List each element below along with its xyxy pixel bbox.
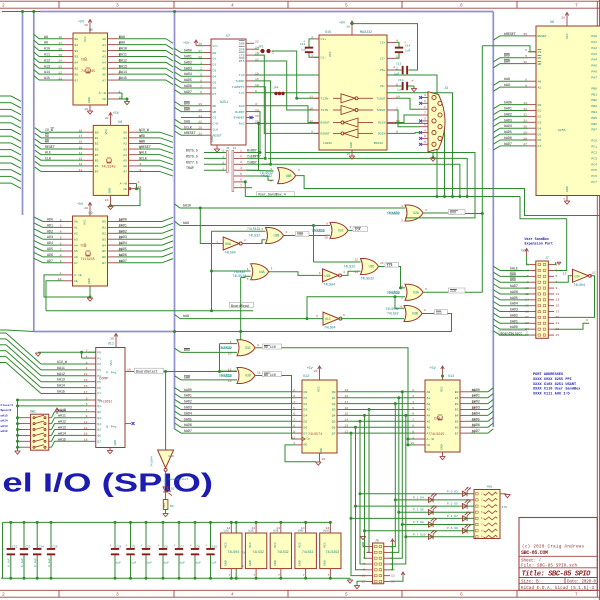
svg-text:8: 8 <box>412 424 414 428</box>
svg-text:20: 20 <box>314 369 318 373</box>
svg-text:wA15: wA15 <box>58 437 66 441</box>
svg-text:IIO: IIO <box>450 289 456 293</box>
svg-text:B1: B1 <box>95 136 99 140</box>
svg-text:P.1 D4: P.1 D4 <box>413 496 424 499</box>
svg-text:RD: RD <box>213 104 217 108</box>
svg-text:Cp: Cp <box>307 437 311 441</box>
svg-text:BRD: BRD <box>504 54 510 58</box>
svg-text:D1: D1 <box>538 109 542 113</box>
svg-text:bCLK: bCLK <box>139 156 147 160</box>
svg-text:B7: B7 <box>95 170 99 174</box>
svg-text:Q0: Q0 <box>332 390 336 394</box>
svg-text:7: 7 <box>303 573 305 577</box>
svg-text:RTS: RTS <box>239 59 245 63</box>
svg-text:GND: GND <box>298 560 302 566</box>
svg-text:1uF: 1uF <box>405 50 411 53</box>
svg-text:bA9: bA9 <box>504 83 510 87</box>
svg-text:bRD: bRD <box>139 134 145 138</box>
svg-text:VCC: VCC <box>317 386 321 392</box>
svg-text:IO_W: IO_W <box>45 128 53 132</box>
svg-text:4: 4 <box>400 304 402 308</box>
svg-text:13: 13 <box>354 270 358 274</box>
svg-text:P=q: P=q <box>111 371 117 375</box>
svg-text:Date: 2020-0: Date: 2020-0 <box>567 580 596 584</box>
svg-text:14: 14 <box>227 526 231 530</box>
svg-text:11: 11 <box>361 573 365 577</box>
svg-text:PB0: PB0 <box>591 86 597 90</box>
svg-text:J3: J3 <box>444 87 448 91</box>
svg-text:A3: A3 <box>427 408 431 412</box>
svg-text:bA12: bA12 <box>57 372 65 376</box>
svg-text:11: 11 <box>556 292 560 296</box>
svg-text:B6: B6 <box>102 255 106 259</box>
svg-text:bAD2: bAD2 <box>119 229 127 233</box>
svg-text:1uF: 1uF <box>196 562 202 565</box>
svg-text:WR: WR <box>213 110 217 114</box>
svg-text:D6: D6 <box>213 86 217 90</box>
svg-text:C7: C7 <box>180 546 184 549</box>
svg-text:ALE: ALE <box>45 151 51 155</box>
svg-text:RST7.5: RST7.5 <box>186 160 198 164</box>
svg-text:PA7: PA7 <box>591 75 597 79</box>
svg-text:A4: A4 <box>74 243 78 247</box>
svg-text:9: 9 <box>326 221 328 225</box>
svg-text:A7: A7 <box>74 261 78 265</box>
svg-text:A3: A3 <box>102 55 106 59</box>
svg-text:bRESET: bRESET <box>504 32 516 36</box>
svg-text:A11: A11 <box>44 52 50 56</box>
svg-text:0.1uF: 0.1uF <box>8 558 11 567</box>
svg-text:7: 7 <box>424 111 426 115</box>
svg-text:BA11: BA11 <box>119 52 127 56</box>
svg-text:D0: D0 <box>213 51 217 55</box>
svg-text:19: 19 <box>410 441 414 445</box>
svg-text:Q0: Q0 <box>97 398 101 402</box>
svg-text:bA15: bA15 <box>57 390 65 394</box>
svg-text:*: * <box>205 544 207 549</box>
svg-text:U6A: U6A <box>225 242 231 246</box>
svg-text:4: 4 <box>424 128 426 132</box>
svg-text:1uF: 1uF <box>180 562 186 565</box>
svg-text:Q5: Q5 <box>332 420 336 424</box>
svg-text:A2: A2 <box>427 402 431 406</box>
svg-text:16: 16 <box>255 114 259 118</box>
svg-text:A0: A0 <box>102 37 106 41</box>
svg-text:CS: CS <box>538 50 542 54</box>
svg-text:P: P <box>106 371 108 375</box>
svg-text:13: 13 <box>556 298 560 302</box>
svg-text:B4: B4 <box>95 153 99 157</box>
svg-text:CE: CE <box>427 443 431 447</box>
svg-text:B1: B1 <box>102 226 106 230</box>
svg-text:wA12: wA12 <box>58 420 66 424</box>
svg-text:bAD4: bAD4 <box>119 241 127 245</box>
svg-text:A6: A6 <box>427 425 431 429</box>
svg-text:13: 13 <box>563 272 567 276</box>
svg-text:74LS04: 74LS04 <box>574 283 586 287</box>
svg-text:AD4: AD4 <box>47 241 53 245</box>
svg-text:19: 19 <box>127 368 131 372</box>
svg-text:Q3: Q3 <box>97 416 101 420</box>
svg-text:VCC: VCC <box>273 542 277 548</box>
svg-text:bA11: bA11 <box>57 366 65 370</box>
svg-text:RD: RD <box>45 134 49 138</box>
svg-text:bAD7: bAD7 <box>119 259 127 263</box>
svg-text:bAD6: bAD6 <box>184 84 192 88</box>
svg-text:2: 2 <box>244 238 246 242</box>
svg-text:bAD4: bAD4 <box>510 302 518 306</box>
svg-text:bAD2: bAD2 <box>184 60 192 64</box>
svg-text:PB5: PB5 <box>591 116 597 120</box>
svg-text:13: 13 <box>228 379 232 383</box>
svg-text:5: 5 <box>247 277 249 281</box>
svg-text:74LS532: 74LS532 <box>312 229 325 233</box>
svg-text:3: 3 <box>425 287 427 291</box>
svg-text:B6: B6 <box>75 72 79 76</box>
svg-text:P.5 D8: P.5 D8 <box>413 521 424 524</box>
svg-text:+5V: +5V <box>183 42 190 46</box>
svg-text:T1IN: T1IN <box>321 97 329 101</box>
svg-text:TRAP: TRAP <box>186 166 194 170</box>
svg-text:GND: GND <box>210 136 214 142</box>
svg-text:330: 330 <box>163 503 166 508</box>
svg-text:bAD7: bAD7 <box>504 142 512 146</box>
svg-text:WR: WR <box>45 139 49 143</box>
svg-text:T1OUT: T1OUT <box>376 97 385 101</box>
svg-text:BWR: BWR <box>184 108 190 112</box>
svg-text:PC7: PC7 <box>591 180 597 184</box>
svg-text:20: 20 <box>105 116 109 120</box>
svg-text:3: 3 <box>271 267 273 271</box>
svg-text:74LS532: 74LS532 <box>387 212 400 216</box>
svg-text:AD6: AD6 <box>47 253 53 257</box>
svg-text:A5: A5 <box>427 420 431 424</box>
svg-text:VCC: VCC <box>322 542 326 548</box>
svg-text:A6: A6 <box>102 72 106 76</box>
svg-text:74LS32: 74LS32 <box>344 265 356 269</box>
svg-text:U3C: U3C <box>245 346 251 350</box>
svg-text:TxD: TxD <box>239 73 245 77</box>
svg-text:B0: B0 <box>455 390 459 394</box>
svg-text:9: 9 <box>412 429 414 433</box>
svg-text:3: 3 <box>240 160 242 164</box>
svg-text:bA9: bA9 <box>183 221 189 225</box>
svg-text:A->B: A->B <box>120 182 128 186</box>
svg-text:III: III <box>436 311 442 315</box>
svg-text:RST5.5: RST5.5 <box>186 149 198 153</box>
svg-text:4: 4 <box>286 230 288 234</box>
svg-text:5: 5 <box>412 406 414 410</box>
svg-text:12: 12 <box>592 271 596 275</box>
svg-text:0.1uF: 0.1uF <box>21 558 24 567</box>
svg-text:J7: J7 <box>545 256 549 260</box>
svg-text:BRD: BRD <box>510 278 516 282</box>
svg-text:A9: A9 <box>44 41 48 45</box>
svg-text:5: 5 <box>345 3 348 9</box>
svg-text:Q1: Q1 <box>332 396 336 400</box>
svg-text:D5: D5 <box>304 420 308 424</box>
svg-text:P=q: P=q <box>111 425 117 429</box>
svg-text:PORT ADDRESSES: PORT ADDRESSES <box>533 373 564 377</box>
svg-text:MAX232: MAX232 <box>360 31 372 35</box>
svg-text:Q4: Q4 <box>97 422 101 426</box>
svg-text:DXX: DXX <box>450 211 456 215</box>
svg-text:74LS32: 74LS32 <box>252 550 264 554</box>
svg-text:D7: D7 <box>213 92 217 96</box>
svg-text:VCC: VCC <box>104 129 108 135</box>
svg-text:bAD6: bAD6 <box>510 290 518 294</box>
svg-text:5: 5 <box>270 179 272 183</box>
svg-text:8: 8 <box>257 343 259 347</box>
svg-text:D4: D4 <box>304 414 308 418</box>
svg-text:U2B: U2B <box>274 234 280 238</box>
svg-text:OE: OE <box>304 442 308 446</box>
svg-text:1uF: 1uF <box>211 562 217 565</box>
svg-text:bAD6: bAD6 <box>119 253 127 257</box>
svg-text:7: 7 <box>278 573 280 577</box>
svg-text:3: 3 <box>425 208 427 212</box>
svg-text:C12: C12 <box>396 63 402 66</box>
svg-text:Q6: Q6 <box>97 434 101 438</box>
svg-text:A1: A1 <box>123 136 127 140</box>
svg-text:RxD: RxD <box>239 104 245 108</box>
svg-text:20: 20 <box>84 23 88 27</box>
svg-text:U3D: U3D <box>245 374 251 378</box>
svg-text:*: * <box>125 544 127 549</box>
svg-text:7: 7 <box>563 197 565 201</box>
svg-text:U11: U11 <box>108 343 114 347</box>
svg-text:bA13: bA13 <box>57 378 65 382</box>
svg-text:1: 1 <box>412 435 414 439</box>
svg-text:B6: B6 <box>95 164 99 168</box>
svg-text:AD3: AD3 <box>47 235 53 239</box>
svg-text:RD: RD <box>538 56 542 60</box>
svg-text:bAD3: bAD3 <box>504 118 512 122</box>
svg-text:A14: A14 <box>44 70 50 74</box>
svg-text:BoardSelect: BoardSelect <box>136 370 158 374</box>
svg-text:9: 9 <box>556 286 558 290</box>
svg-text:8: 8 <box>424 122 426 126</box>
svg-text:BRD: BRD <box>184 348 190 352</box>
svg-text:1uF: 1uF <box>116 562 122 565</box>
svg-text:74LS532: 74LS532 <box>260 171 273 175</box>
svg-text:D2: D2 <box>304 402 308 406</box>
svg-text:*: * <box>158 544 160 549</box>
svg-text:7: 7 <box>575 3 578 9</box>
svg-text:BWR: BWR <box>510 272 516 276</box>
svg-text:A->B: A->B <box>427 437 435 441</box>
svg-text:AD0: AD0 <box>47 218 53 222</box>
svg-text:bA10: bA10 <box>183 204 191 208</box>
svg-text:1uF: 1uF <box>147 562 153 565</box>
svg-text:8251: 8251 <box>220 101 228 105</box>
svg-text:XXXX X110 User SandBox: XXXX X110 User SandBox <box>533 387 581 392</box>
svg-text:Q2: Q2 <box>97 410 101 414</box>
svg-text:U12: U12 <box>303 375 309 379</box>
svg-text:1: 1 <box>222 149 224 153</box>
svg-text:U1B: U1B <box>325 274 331 278</box>
svg-text:User SandBox: User SandBox <box>525 237 549 242</box>
svg-text:PB7: PB7 <box>591 128 597 132</box>
svg-text:BA8: BA8 <box>119 35 125 39</box>
svg-text:15: 15 <box>556 303 560 307</box>
svg-text:74LS32: 74LS32 <box>249 234 261 238</box>
svg-text:PA3: PA3 <box>591 52 597 56</box>
svg-text:Q: Q <box>106 425 108 429</box>
svg-text:D3: D3 <box>304 408 308 412</box>
svg-text:+5V: +5V <box>430 367 437 371</box>
svg-text:A->B: A->B <box>74 273 82 277</box>
svg-text:bAD3: bAD3 <box>472 406 480 410</box>
svg-text:AD7: AD7 <box>47 259 53 263</box>
svg-text:3: 3 <box>556 268 558 272</box>
svg-text:1: 1 <box>222 166 224 170</box>
svg-text:VCC: VCC <box>109 360 113 366</box>
svg-text:PA2: PA2 <box>591 46 597 50</box>
svg-text:1uF: 1uF <box>131 562 137 565</box>
svg-text:BA12: BA12 <box>119 58 127 62</box>
svg-text:Q4: Q4 <box>332 414 336 418</box>
svg-text:RS232: RS232 <box>374 141 383 145</box>
svg-text:TxEMPTY: TxEMPTY <box>247 154 261 158</box>
svg-text:bCLK: bCLK <box>184 125 192 129</box>
svg-text:A4: A4 <box>102 61 106 65</box>
svg-text:74LS04: 74LS04 <box>151 456 154 467</box>
svg-text:U1D: U1D <box>169 455 175 458</box>
svg-text:A6: A6 <box>123 164 127 168</box>
svg-text:D0: D0 <box>538 103 542 107</box>
svg-text:RESET: RESET <box>538 34 547 38</box>
svg-text:U3B: U3B <box>412 312 418 316</box>
svg-text:CE: CE <box>102 97 106 101</box>
svg-text:AD5: AD5 <box>47 247 53 251</box>
svg-text:14: 14 <box>301 526 305 530</box>
svg-text:5: 5 <box>240 172 242 176</box>
svg-text:U3A: U3A <box>413 291 419 295</box>
svg-text:bAD0: bAD0 <box>119 218 127 222</box>
svg-text:R2OUT: R2OUT <box>321 132 330 136</box>
svg-text:1: 1 <box>424 93 426 97</box>
svg-text:1: 1 <box>401 284 403 288</box>
svg-text:VCC: VCC <box>223 542 227 548</box>
svg-text:bAD1: bAD1 <box>472 394 480 398</box>
svg-text:4: 4 <box>343 270 345 274</box>
svg-text:wA12: wA12 <box>1 430 8 433</box>
svg-text:5: 5 <box>345 592 348 598</box>
svg-text:10: 10 <box>105 198 109 202</box>
svg-text:A0: A0 <box>74 220 78 224</box>
svg-text:GND: GND <box>113 440 117 446</box>
svg-text:D4: D4 <box>213 74 217 78</box>
svg-text:1: 1 <box>216 239 218 243</box>
svg-text:wA11: wA11 <box>58 414 66 418</box>
svg-text:1: 1 <box>138 180 140 184</box>
svg-text:bAD5: bAD5 <box>119 247 127 251</box>
svg-text:GND: GND <box>108 188 112 194</box>
svg-text:GND: GND <box>248 560 252 566</box>
svg-text:BWR: BWR <box>504 60 510 64</box>
svg-text:DSR: DSR <box>239 42 245 46</box>
svg-text:*: * <box>174 544 176 549</box>
svg-text:A7: A7 <box>102 78 106 82</box>
svg-text:BoardSelect: BoardSelect <box>501 332 523 336</box>
svg-text:8: 8 <box>350 225 352 229</box>
svg-text:14: 14 <box>276 526 280 530</box>
svg-text:C2-: C2- <box>380 57 386 61</box>
svg-text:P.2 D5: P.2 D5 <box>447 503 458 506</box>
svg-text:2: 2 <box>412 388 414 392</box>
svg-text:P6: P6 <box>97 386 101 390</box>
svg-text:BoardRead: BoardRead <box>231 304 249 308</box>
svg-text:U2C: U2C <box>338 229 344 233</box>
svg-text:3: 3 <box>319 271 321 275</box>
svg-text:VCC: VCC <box>440 386 444 392</box>
svg-text:bWR: bWR <box>139 139 145 143</box>
svg-text:wA13: wA13 <box>1 425 8 428</box>
svg-text:BRD: BRD <box>184 102 190 106</box>
svg-text:bAD2: bAD2 <box>184 400 192 404</box>
svg-text:Parallel I/O (SPIO): Parallel I/O (SPIO) <box>0 470 213 498</box>
svg-text:RD 110: RD 110 <box>264 345 276 349</box>
svg-text:BA13: BA13 <box>119 64 127 68</box>
svg-text:74LS245: 74LS245 <box>101 165 115 169</box>
svg-text:5: 5 <box>363 556 365 560</box>
svg-text:B0: B0 <box>95 130 99 134</box>
svg-text:C5: C5 <box>132 546 136 549</box>
svg-text:WR 110: WR 110 <box>264 373 276 377</box>
svg-text:bAD1: bAD1 <box>510 319 518 323</box>
svg-text:T2OUT: T2OUT <box>376 108 385 112</box>
svg-text:9: 9 <box>311 130 313 134</box>
svg-text:C8: C8 <box>147 546 151 549</box>
svg-text:A->B: A->B <box>99 91 107 95</box>
svg-text:wA14: wA14 <box>1 420 8 423</box>
svg-text:B1: B1 <box>75 43 79 47</box>
svg-text:1uF: 1uF <box>301 49 307 52</box>
svg-text:D1: D1 <box>213 57 217 61</box>
svg-text:16: 16 <box>346 25 350 29</box>
svg-text:Q7: Q7 <box>332 431 336 435</box>
svg-text:Sheet: /: Sheet: / <box>521 559 542 564</box>
svg-text:PC2: PC2 <box>591 151 597 155</box>
svg-text:9: 9 <box>586 318 588 322</box>
svg-text:8255: 8255 <box>558 128 566 132</box>
svg-text:CLK: CLK <box>45 156 51 160</box>
svg-text:B5: B5 <box>95 159 99 163</box>
svg-text:bWR: bWR <box>184 376 190 380</box>
svg-text:D2: D2 <box>213 63 217 67</box>
svg-text:A10: A10 <box>44 47 50 51</box>
svg-text:A15: A15 <box>44 76 50 80</box>
svg-text:R2IN: R2IN <box>378 132 386 136</box>
svg-text:D4: D4 <box>538 126 542 130</box>
svg-text:6: 6 <box>343 313 345 317</box>
svg-text:Vcc: Vcc <box>213 44 219 48</box>
svg-text:bAD7: bAD7 <box>472 429 480 433</box>
svg-text:wA10: wA10 <box>58 408 66 412</box>
svg-text:BA10: BA10 <box>119 47 127 51</box>
svg-text:74LS532: 74LS532 <box>386 307 399 311</box>
svg-text:4: 4 <box>231 3 234 9</box>
svg-text:U9: U9 <box>89 212 93 216</box>
svg-text:bAD1: bAD1 <box>504 107 512 111</box>
svg-text:VCC: VCC <box>83 219 87 225</box>
svg-text:1: 1 <box>240 148 242 152</box>
svg-text:bAD6: bAD6 <box>184 423 192 427</box>
svg-text:*: * <box>190 544 192 549</box>
svg-text:WR: WR <box>538 62 542 66</box>
svg-text:10: 10 <box>84 107 88 111</box>
